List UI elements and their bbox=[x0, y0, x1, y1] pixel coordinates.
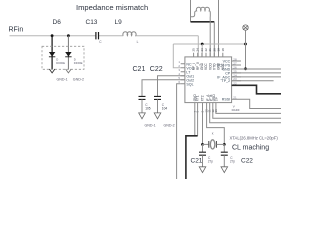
wire crystal left bbox=[203, 143, 209, 145]
svg-text:C13: C13 bbox=[86, 19, 98, 26]
svg-text:D6: D6 bbox=[53, 19, 62, 26]
wire right pin y85.3 stepped dark bbox=[232, 85, 281, 94]
capacitor C21 mid bbox=[139, 96, 146, 99]
svg-text:TP_2: TP_2 bbox=[222, 79, 231, 83]
wire diode2 vertical bbox=[67, 36, 69, 69]
wire pin6 down-left long vertical bbox=[177, 84, 181, 179]
IC bottom pin stubs bbox=[195, 103, 216, 107]
wire right pin y76.9 to edge bbox=[232, 76, 281, 78]
svg-text:RADF: RADF bbox=[232, 108, 240, 112]
node dot at right pin wire bbox=[244, 67, 247, 70]
svg-text:Impedance mismatch: Impedance mismatch bbox=[76, 3, 148, 12]
ground diode2 bbox=[66, 69, 72, 73]
diode D6-b bbox=[65, 52, 71, 57]
svg-text:GND-2: GND-2 bbox=[164, 123, 175, 127]
svg-text:18: 18 bbox=[221, 48, 225, 52]
wire net y44 horizontal bbox=[173, 43, 245, 45]
wire bottom pin9 down to crystal bbox=[202, 107, 204, 144]
wire dark step left to bottom edge bbox=[186, 136, 198, 179]
wire C22 to pin4 bbox=[158, 76, 185, 97]
wire xtal cap right down bbox=[223, 144, 225, 152]
ground C22 mid bbox=[154, 113, 161, 119]
svg-text:C22: C22 bbox=[241, 157, 253, 164]
svg-text:DIODE: DIODE bbox=[56, 61, 65, 65]
svg-text:VCC: VCC bbox=[221, 63, 225, 70]
wire crystal right bbox=[216, 143, 224, 145]
IC right pin stubs bbox=[232, 61, 241, 85]
node dot y44 right bbox=[244, 43, 247, 46]
svg-text:C22: C22 bbox=[150, 66, 163, 73]
svg-text:27p: 27p bbox=[208, 160, 214, 164]
wire bottom pin8 down bbox=[197, 107, 199, 136]
svg-text:L: L bbox=[137, 40, 139, 44]
ground xtal cap right bbox=[221, 167, 228, 173]
capacitor C21 xtal bbox=[199, 152, 206, 155]
inductor top (unlabeled) bbox=[191, 7, 211, 17]
svg-text:XT2: XT2 bbox=[201, 95, 205, 101]
pin numbers top bbox=[192, 48, 225, 52]
svg-text:SQL: SQL bbox=[186, 82, 193, 86]
svg-text:DIODE: DIODE bbox=[74, 61, 83, 65]
svg-text:XTAL(26.8MHz CL=20pF): XTAL(26.8MHz CL=20pF) bbox=[230, 135, 279, 140]
ground C21 mid bbox=[139, 113, 146, 119]
svg-text:XT1: XT1 bbox=[196, 95, 200, 101]
wire RF between C13 and L9 bbox=[99, 35, 124, 37]
wire C21 down to ground bbox=[141, 99, 143, 113]
wire C22 down to ground bbox=[157, 99, 159, 113]
wire bottom pin10 to crystal right node bbox=[207, 107, 225, 144]
testpoint circle symbol bbox=[243, 25, 248, 30]
wire bottom pin7 down bbox=[194, 107, 196, 136]
wire right pin y80.8 bbox=[232, 80, 274, 82]
wire testpoint vertical down bbox=[245, 30, 247, 69]
svg-text:RFin: RFin bbox=[9, 27, 24, 34]
pin numbers bottom bbox=[193, 109, 218, 113]
svg-text:C21: C21 bbox=[191, 157, 203, 164]
wire xtal cap right to gnd bbox=[223, 155, 225, 167]
wire xtal cap left to gnd bbox=[202, 155, 204, 167]
svg-text:GND-1: GND-1 bbox=[57, 78, 68, 82]
wire right pin y99.3 stepped bbox=[232, 99, 281, 108]
crystal X1 bbox=[209, 141, 217, 148]
svg-text:CL maching: CL maching bbox=[232, 144, 269, 151]
svg-text:x: x bbox=[212, 132, 214, 136]
capacitor C22 mid bbox=[154, 96, 161, 99]
svg-text:RSSI: RSSI bbox=[222, 98, 230, 102]
diode D6-a bbox=[49, 52, 55, 57]
wire dark corner vertical to IC bbox=[213, 22, 215, 57]
IC bottom pin names (rotated) bbox=[193, 94, 219, 102]
dashed box around D6 bbox=[42, 46, 84, 69]
svg-text:TP: TP bbox=[215, 97, 219, 101]
wire from dot down to IC top pin bbox=[201, 44, 203, 57]
wire C21 to pin5 bbox=[142, 80, 185, 97]
wire RF main horizontal bbox=[10, 35, 96, 37]
wire xtal cap left down bbox=[202, 144, 204, 152]
wire bottom pin11 to right edge bbox=[210, 107, 281, 123]
node dot y44 to top pin bbox=[201, 43, 204, 46]
wire bottom pin13 to right edge bbox=[216, 107, 281, 113]
svg-text:27p: 27p bbox=[230, 160, 236, 164]
wire diode1 vertical bbox=[51, 36, 53, 69]
node junction dot diode2 bbox=[67, 34, 70, 37]
wire top-right vertical from top edge to IC pin bbox=[218, 0, 220, 57]
wire bottom pin12 to right edge bbox=[213, 107, 281, 118]
wire dark horizontal top bbox=[191, 21, 215, 23]
capacitor C13 bbox=[96, 32, 99, 39]
capacitor C22 xtal bbox=[221, 152, 228, 155]
wire right pin y69 to right edge (junction with testpoint drop) bbox=[232, 68, 281, 70]
wire top-left vertical from top edge bbox=[190, 0, 192, 22]
svg-text:C21: C21 bbox=[133, 66, 146, 73]
svg-text:105: 105 bbox=[145, 107, 151, 111]
ground xtal cap left bbox=[199, 167, 206, 173]
svg-text:GND-1: GND-1 bbox=[145, 123, 156, 127]
node junction dot diode1 bbox=[51, 34, 54, 37]
ground diode1 bbox=[49, 69, 55, 73]
svg-text:GND-2: GND-2 bbox=[73, 78, 84, 82]
wire net y44 left drop to pin2 bbox=[173, 44, 180, 68]
inductor L9 bbox=[123, 32, 136, 36]
IC top pin stubs bbox=[194, 53, 223, 57]
IC left pin stubs bbox=[181, 64, 185, 84]
IC U1 body bbox=[185, 57, 232, 103]
node dot crystal left bbox=[201, 143, 204, 146]
svg-text:104: 104 bbox=[162, 107, 168, 111]
IC top pin names (rotated) bbox=[192, 61, 225, 70]
svg-text:L9: L9 bbox=[115, 19, 123, 26]
node dot crystal right bbox=[223, 143, 226, 146]
wire RF after L9 to corner bbox=[136, 35, 198, 37]
wire RF corner down to IC top pin bbox=[197, 36, 199, 57]
wire right pin y72.9 to edge bbox=[232, 72, 281, 74]
wire inductor right vertical to IC pin bbox=[209, 17, 211, 57]
